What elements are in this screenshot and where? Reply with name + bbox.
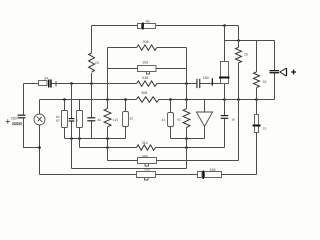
svg-text:168: 168 <box>210 168 216 172</box>
wire V2 meter branch <box>39 100 41 175</box>
component box80 <box>77 111 83 128</box>
wire V10 res62 long branch <box>186 48 188 169</box>
wire V15 polar cap branch <box>274 41 276 100</box>
wire V13 res26 long branch <box>238 26 240 161</box>
resistor R308 <box>136 97 158 102</box>
wire rail H11 y174.5 <box>40 174 257 176</box>
resistor R26 <box>236 47 242 63</box>
resistor R638 <box>137 81 157 86</box>
wire V12 boxcap/cap16 branch <box>224 26 226 148</box>
wire V7 res115 branch <box>107 48 109 161</box>
svg-text:48: 48 <box>97 118 101 122</box>
capacitor C168 <box>198 172 222 178</box>
svg-text:62: 62 <box>56 119 60 123</box>
component box42 <box>168 113 174 127</box>
capacitor C280 <box>18 115 26 116</box>
resistor R55 <box>254 72 260 88</box>
resistor R23 <box>89 53 95 72</box>
svg-text:16: 16 <box>231 118 235 122</box>
svg-text:15: 15 <box>263 126 267 130</box>
wire rail H9 y160.5 <box>108 160 239 162</box>
resistor R159 box <box>138 66 157 75</box>
wire V8 box33 branch <box>125 100 127 139</box>
svg-text:308: 308 <box>141 91 147 95</box>
wire V4 cap72 branch <box>71 84 73 169</box>
node dots on H8 <box>106 146 109 149</box>
capacitor C48 <box>87 117 95 118</box>
node dot A (224.5,25.5) <box>223 24 226 27</box>
wire V3 box60 branch <box>64 100 66 139</box>
svg-text:33: 33 <box>129 117 133 121</box>
capacitor C223 box <box>221 62 229 84</box>
capacitor plate at 212.4 <box>212 78 213 85</box>
wire V9 box42 branch <box>170 100 172 139</box>
wire rail H7 segment1 y138.5 <box>65 138 126 140</box>
node dot (39.5,147.5) <box>38 146 41 149</box>
node dot (91.5,83.5) <box>90 82 93 85</box>
svg-text:54: 54 <box>44 76 48 80</box>
plus sign <box>291 70 296 75</box>
capacitor C54 <box>39 81 48 86</box>
wire rail H2 y40.5 <box>225 40 275 42</box>
component box33 <box>123 112 129 127</box>
svg-text:62: 62 <box>177 118 181 122</box>
resistor R115 <box>104 109 111 127</box>
op-amp U1 triangle <box>196 112 212 126</box>
node dots on H7 <box>70 137 73 140</box>
capacitor C15 box <box>255 115 259 133</box>
svg-text:23: 23 <box>95 61 99 65</box>
capacitor C16 <box>221 115 229 116</box>
capacitor C46 <box>138 24 156 29</box>
capacitor C+ plates <box>270 70 280 71</box>
svg-text:159: 159 <box>142 61 148 65</box>
svg-text:115: 115 <box>113 118 118 122</box>
polarity plus of C280 <box>6 119 10 123</box>
wire V14 res55/box15 branch <box>256 41 258 175</box>
capacitor C72 <box>69 118 75 119</box>
svg-text:55: 55 <box>263 80 267 84</box>
wire big rail H6 y99.5 <box>40 99 275 101</box>
wire rail H10 y168.5 <box>72 168 187 170</box>
svg-text:172: 172 <box>144 169 150 173</box>
node dot (71.5,83.5) <box>70 82 73 85</box>
svg-text:46: 46 <box>146 20 150 24</box>
polar triangle <box>280 68 286 76</box>
resistor R62 <box>183 109 190 128</box>
wire rail H4 y68.5 <box>108 68 187 70</box>
wire rail H8 y147.5 <box>80 147 225 149</box>
resistor R208 <box>137 45 157 50</box>
svg-text:314: 314 <box>142 141 148 145</box>
svg-text:180: 180 <box>203 76 209 80</box>
svg-text:280: 280 <box>11 116 17 120</box>
svg-text:348: 348 <box>142 154 148 158</box>
wire rail H3 y47.5 <box>108 47 187 49</box>
meter M1 circle <box>34 114 45 125</box>
wire main rail H5 y83.5 <box>24 83 221 85</box>
node dots on H6 <box>63 98 66 101</box>
meter M1 needle X <box>37 117 43 122</box>
svg-text:638: 638 <box>142 76 148 80</box>
wire top rail H1 <box>92 25 239 27</box>
resistor R314 <box>137 145 156 150</box>
wire V11 op-amp branch <box>204 100 206 139</box>
wire V5 box80 branch <box>79 100 81 148</box>
capacitor C180 <box>196 79 197 88</box>
svg-text:26: 26 <box>244 53 248 57</box>
node dot (238.5,40.5) <box>237 39 240 42</box>
wire V6 res23/cap48 branch <box>91 26 93 139</box>
component box60 <box>62 111 68 128</box>
wire rail H7 segment2 y138.5 <box>171 138 205 140</box>
wire V1 cap280 branch <box>24 84 40 148</box>
resistor R172 box <box>137 172 156 181</box>
hatched bar under C280 label <box>12 123 22 125</box>
svg-text:208: 208 <box>143 40 149 44</box>
svg-text:42: 42 <box>162 118 166 122</box>
node dot (186.5,83.5) <box>185 82 188 85</box>
resistor R348 box <box>138 158 157 167</box>
